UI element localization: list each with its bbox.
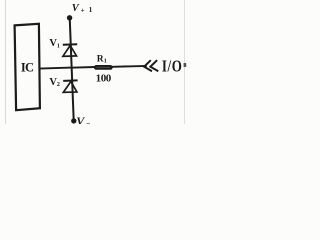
- I/O label: [162, 58, 183, 76]
- wire IC to diode junction: [40, 68, 72, 69]
- node V- terminal dot: [71, 118, 76, 123]
- IC U1 box: [15, 24, 40, 110]
- scan edge line right: [184, 0, 186, 124]
- off-page connector chevron 2: [150, 60, 158, 71]
- svg-text:−: −: [86, 119, 90, 124]
- svg-text:1: 1: [104, 59, 107, 65]
- svg-text:V: V: [72, 3, 80, 14]
- svg-text:V: V: [76, 114, 85, 124]
- off-page connector chevron 1: [144, 60, 152, 71]
- scan speck on right edge: [184, 63, 187, 67]
- diode V1 cathode bar: [63, 43, 77, 46]
- svg-text:1: 1: [89, 6, 93, 14]
- resistor R1 body: [94, 65, 113, 70]
- diode V2 cathode bar: [63, 79, 77, 82]
- scan edge line left: [5, 0, 7, 124]
- wire junction to resistor: [71, 66, 95, 69]
- wire V+ rail vertical through diodes: [70, 18, 74, 121]
- node V+1 terminal dot: [67, 15, 72, 20]
- svg-text:1: 1: [57, 43, 60, 49]
- svg-text:100: 100: [96, 72, 112, 84]
- wire resistor to I/O connector: [112, 65, 147, 68]
- svg-text:2: 2: [57, 82, 60, 88]
- diode V2 triangle: [63, 82, 77, 93]
- svg-text:R: R: [97, 54, 104, 64]
- svg-text:+: +: [81, 6, 85, 14]
- page background: [0, 0, 189, 124]
- svg-text:I/O: I/O: [162, 58, 183, 76]
- diode V1 triangle: [63, 45, 77, 56]
- svg-text:IC: IC: [21, 61, 34, 75]
